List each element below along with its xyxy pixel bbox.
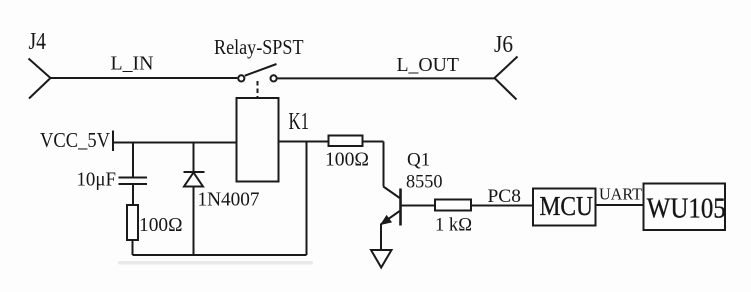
svg-text:UART: UART <box>599 185 643 204</box>
svg-text:WU105: WU105 <box>647 193 726 225</box>
svg-text:VCC_5V: VCC_5V <box>40 128 110 152</box>
svg-text:Q1: Q1 <box>407 150 430 171</box>
svg-text:100Ω: 100Ω <box>325 149 369 171</box>
svg-text:PC8: PC8 <box>488 186 522 207</box>
svg-text:Relay-SPST: Relay-SPST <box>214 35 304 59</box>
svg-text:L_OUT: L_OUT <box>397 54 460 76</box>
svg-text:8550: 8550 <box>406 172 443 193</box>
svg-text:K1: K1 <box>289 109 310 135</box>
svg-text:L_IN: L_IN <box>111 53 154 75</box>
svg-text:100Ω: 100Ω <box>139 214 183 236</box>
svg-text:J6: J6 <box>494 32 513 58</box>
svg-text:1 kΩ: 1 kΩ <box>435 215 472 236</box>
svg-text:MCU: MCU <box>540 191 594 221</box>
svg-text:1N4007: 1N4007 <box>198 189 260 211</box>
svg-text:10μF: 10μF <box>77 169 117 191</box>
svg-text:J4: J4 <box>29 29 47 55</box>
